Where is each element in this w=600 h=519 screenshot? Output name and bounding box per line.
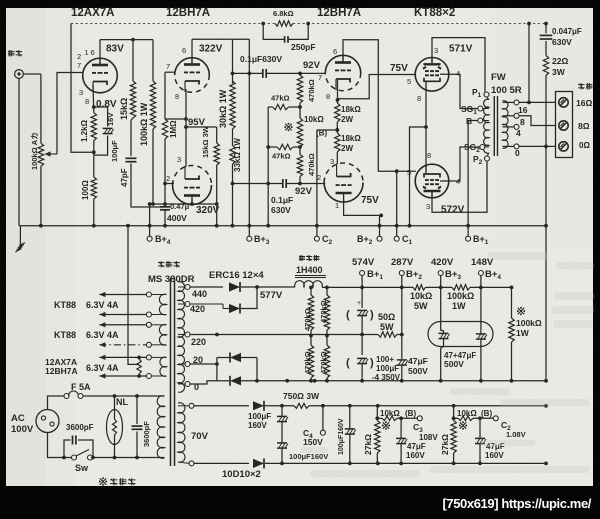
choke 1H400 <box>295 281 323 287</box>
label 0.1uF630V upper <box>240 54 282 64</box>
label 574V <box>352 257 375 268</box>
wire plate node y204 <box>150 202 217 206</box>
label 18k-ohm 2W second <box>341 134 361 153</box>
label 10D10x2 <box>222 469 261 480</box>
tube KT88 upper <box>415 58 449 92</box>
wire V3a cathode <box>336 80 340 102</box>
label 75V upper <box>390 63 408 74</box>
wire switch to PT <box>62 456 164 460</box>
PT core <box>171 278 175 466</box>
label 100k-ohm 1W <box>139 102 149 146</box>
wire V2a grid drop <box>164 72 166 119</box>
terminal tap 20 <box>178 362 190 367</box>
wire KT88 lower cathode <box>425 127 427 173</box>
wire AC top <box>48 396 65 410</box>
resistor 18k-ohm 2W second <box>335 133 340 152</box>
label 100+100uF <box>372 355 401 382</box>
resistor 47k-ohm upper <box>268 104 300 109</box>
resistor 100-ohm <box>91 177 96 199</box>
mark kome upper <box>284 123 292 131</box>
label 15k-ohm <box>119 98 129 120</box>
capacitor bias doubler 1 <box>277 406 288 443</box>
wire coupling top <box>233 72 263 74</box>
terminal C2 upper <box>314 234 332 246</box>
capacitor 47pF <box>126 158 137 161</box>
resistor 1M-ohm grid <box>162 119 167 139</box>
label 470k-ohm upper <box>307 79 316 102</box>
wire 220 tap line <box>190 334 217 336</box>
label Sw <box>75 463 89 473</box>
wire V1 cathode <box>92 85 95 113</box>
label 10k-ohm 5W <box>410 291 432 311</box>
resistor 50-ohm 5W <box>362 332 397 337</box>
label 420 <box>190 304 205 314</box>
wire sec top tap 16-ohm <box>503 100 556 105</box>
wire sec tap 8 <box>503 113 556 125</box>
heater winding KT88 no2 <box>151 325 166 346</box>
wire heater3 leads <box>99 355 146 379</box>
terminal board <box>556 92 573 158</box>
wire input ground stub <box>19 225 20 227</box>
wire zobel down right rail <box>545 76 547 147</box>
wire divider1 tap <box>375 416 382 420</box>
pin 6 V2a <box>182 46 186 55</box>
tube KT88 lower <box>415 164 449 198</box>
pin 3 V3b <box>330 157 334 166</box>
PT HV secondary <box>178 282 184 393</box>
diode D2 <box>229 304 240 314</box>
wire 47pF to V2b grid <box>131 164 165 208</box>
label 33k-ohm 1W <box>233 138 242 172</box>
wire B+2 stub <box>400 276 404 290</box>
terminal B+2 upper <box>357 234 382 246</box>
label 572V <box>441 205 465 216</box>
label 420V <box>431 257 454 268</box>
resistor 470k-ohm B1 <box>324 295 329 330</box>
label 0.047uF <box>552 27 582 36</box>
wire B+3 stub <box>439 276 443 290</box>
label 47uF 160V first <box>406 442 426 460</box>
label FW <box>491 72 506 83</box>
terminal C1 upper <box>394 234 412 246</box>
wire right ground rail <box>544 146 548 380</box>
terminal B+1 upper <box>466 234 489 246</box>
wire D3-D4 join <box>256 358 258 381</box>
label 400V <box>167 213 187 223</box>
label 30k-ohm 1W <box>218 89 228 128</box>
wire cathode node <box>92 105 96 177</box>
pin 7 V3a <box>318 73 322 82</box>
tube V3b 12BH7A lower <box>324 163 363 202</box>
capacitor 0.47uF 400V <box>160 207 170 210</box>
resistor 470k-ohm lower <box>297 147 302 184</box>
wire bypass bottom <box>94 136 108 156</box>
capacitor 100uF 160V smoothing <box>345 406 356 464</box>
tube V2b 12BH7A lower half <box>173 166 212 205</box>
pin 7 V2a <box>166 62 170 71</box>
label 6.8k-ohm <box>273 9 294 18</box>
label NL <box>116 397 128 407</box>
terminal B+3 <box>247 234 270 246</box>
label 47+47uF 500V <box>444 351 476 369</box>
resistor 15k-ohm 3W <box>214 143 219 165</box>
label 100uF 160V bias <box>248 412 271 430</box>
wire V2a plate up <box>192 39 233 64</box>
resistor 30k-ohm 1W <box>230 81 235 129</box>
wire left chain rail <box>266 107 270 228</box>
label tango choke <box>299 255 319 261</box>
wire D2 out up <box>241 287 257 309</box>
label 92V upper <box>303 60 321 71</box>
pin 2 <box>77 52 81 61</box>
wire sec tap 0 <box>503 144 556 149</box>
wire V1 plate up <box>100 38 153 65</box>
label 220 <box>191 337 206 347</box>
label 10k-ohm B first <box>380 409 416 418</box>
resistor 15k-ohm <box>130 81 135 118</box>
diode D1 <box>229 282 240 292</box>
pin 2 V3b <box>317 173 321 182</box>
label adjust note <box>99 477 136 485</box>
label 3600pF sw <box>66 423 94 432</box>
terminal SG2 <box>464 142 489 154</box>
scan artifact blotches <box>300 252 594 477</box>
label 27k-ohm second <box>440 434 450 455</box>
label 470k-ohm A2 <box>303 351 312 374</box>
label AC 100V <box>11 413 34 435</box>
terminal heater1 b <box>146 312 151 317</box>
pin 3 KT88 upper <box>434 46 438 55</box>
label 70V <box>191 431 209 442</box>
resistor 470k-ohm B2 <box>324 345 329 378</box>
wire heater1 leads <box>99 292 146 317</box>
label 100k-ohm A <box>30 132 39 170</box>
terminal B+3 psu <box>438 269 461 281</box>
wire 15k3W bottom to bus <box>215 165 219 228</box>
wire 30k to 33k <box>231 129 235 185</box>
terminal heater1 a <box>146 292 151 297</box>
terminal 70V bottom <box>178 461 194 466</box>
resistor 27k-ohm second <box>451 406 456 464</box>
label 12BH7A first <box>166 7 210 19</box>
pin 5 KT88 lower <box>407 168 411 177</box>
pot wiper arrow <box>45 151 58 156</box>
terminal B+2 psu <box>399 269 422 281</box>
label 50-ohm 5W <box>378 312 395 332</box>
label 10k-ohm B second <box>457 409 492 418</box>
resistor 470k-ohm A2 <box>308 345 313 378</box>
wire B+2 column <box>401 287 403 359</box>
label 100k-ohm 1W dropper <box>447 291 474 311</box>
resistor 100k-ohm 1W plate load <box>150 81 155 129</box>
capacitor 47uF 160V first <box>396 416 407 463</box>
PT 70V winding <box>178 403 185 463</box>
wire 1M top tick <box>165 117 188 121</box>
wire D1 out <box>241 285 295 289</box>
pin 8 KT88 upper <box>417 94 421 103</box>
label 16-ohm out <box>576 98 592 108</box>
capacitor bias doubler 2 <box>277 443 288 465</box>
wire bypass top <box>94 107 108 127</box>
wire V2a grid <box>165 71 175 73</box>
terminal B bias first <box>417 416 422 421</box>
label 100uF160V vert <box>338 418 345 455</box>
wire KT88 lower g2 <box>440 147 480 181</box>
label tap 0 <box>515 148 520 158</box>
wire to D3 <box>217 357 229 359</box>
capacitor filter 50uF first <box>346 300 374 336</box>
label 47k-ohm lower <box>272 152 291 161</box>
terminal P2 <box>473 153 490 166</box>
capacitor 47uF b <box>476 334 487 381</box>
wire bplus bus 1 <box>362 286 413 288</box>
wire pot top drop <box>40 74 42 143</box>
label 1.2k-ohm <box>80 119 89 142</box>
label 250pF <box>291 42 316 52</box>
wire bias bottom <box>194 462 249 464</box>
label 470k-ohm A1 <box>303 308 312 331</box>
wire NL stubs <box>114 396 116 458</box>
wire ground bus <box>20 225 546 227</box>
terminal B <box>466 116 489 126</box>
wire feedback drop to V1 cathode <box>71 24 94 153</box>
resistor 33k-ohm 1W <box>230 146 235 165</box>
label 0.1uF 630V lower <box>271 195 293 215</box>
resistor 1.2k-ohm cathode <box>91 113 96 141</box>
PT AC primary <box>157 396 164 459</box>
wire 100-ohm to bus <box>92 199 96 228</box>
wire bias top cont <box>265 404 294 408</box>
wire B+3 riser <box>247 39 251 238</box>
capacitor filter second <box>346 357 374 381</box>
neon lamp NL <box>107 410 123 445</box>
wire jack ground drop <box>18 78 20 225</box>
wire heater2 leads <box>99 322 146 347</box>
heater winding KT88 no1 <box>151 294 166 315</box>
wire bplus bus 2 <box>426 286 453 288</box>
label 6.3V 4A h2 <box>86 330 119 340</box>
mark kome d1 <box>382 421 390 429</box>
pin 4 KT88 upper <box>456 69 460 78</box>
label 100-ohm <box>81 180 90 200</box>
label KT88x2 <box>414 7 455 19</box>
label 750-ohm 3W <box>283 391 320 401</box>
wire bias bottom cont <box>265 462 548 466</box>
label KT88 h1 <box>54 300 76 310</box>
diode D4 <box>230 376 241 386</box>
label 22-ohm <box>552 56 568 66</box>
wire D3 out <box>241 357 257 359</box>
wire 420 to D2 <box>190 304 229 309</box>
resistor hum balance <box>136 356 141 378</box>
resistor 47k-ohm lower <box>268 144 302 149</box>
wire B+1 riser <box>466 121 478 239</box>
label 470k-ohm lower <box>307 153 316 176</box>
label 0-ohm out <box>579 141 590 150</box>
terminal heater2 b <box>146 342 151 347</box>
label tap 4 <box>516 128 521 138</box>
label C2 bias <box>501 420 511 432</box>
label 12AX7A <box>71 7 114 19</box>
wire 15k drop <box>132 40 134 81</box>
wire fuse to PT <box>83 394 165 398</box>
capacitor 0.047uF 630V <box>540 24 553 56</box>
capacitor 0.1uF 630V upper <box>263 69 266 78</box>
wire coupling bottom <box>233 183 283 185</box>
label MS 380DR <box>148 274 195 285</box>
wire KT88 lower plate <box>432 161 487 212</box>
wire feedback riser <box>528 24 530 103</box>
label tap 16 <box>518 105 528 115</box>
label 320V <box>196 205 220 216</box>
wire 0 tap <box>190 381 217 384</box>
resistor 6.8k-ohm feedback <box>275 21 293 26</box>
wire cathodes join to bus <box>408 125 428 228</box>
pin 8 <box>85 97 89 106</box>
label 12BH7A second <box>317 7 361 19</box>
wire 15k3W top <box>184 125 217 143</box>
wire B+3 column <box>441 287 444 333</box>
pin 6 <box>91 48 95 57</box>
wire wiper to V1 grid <box>57 73 83 155</box>
capacitor 47uF a <box>439 333 450 380</box>
terminal P1 <box>472 87 489 99</box>
wire coupling top to V3a grid <box>267 72 325 76</box>
wire filter2 drop <box>361 335 363 356</box>
label 287V <box>391 257 414 268</box>
wire lower diode anode rail <box>216 358 218 381</box>
wire V1 plate load drop <box>152 40 154 81</box>
mark kome bleeder <box>517 307 525 315</box>
wire 0.47u to bus <box>163 210 167 228</box>
terminal B+4 <box>147 202 171 246</box>
wire bias top <box>194 405 249 407</box>
paper noise texture <box>0 0 1 1</box>
resistor 10k-ohm B grid <box>297 118 302 147</box>
ground symbol <box>15 226 25 252</box>
label 27k-ohm first <box>363 434 373 455</box>
label 6.3V 4A h3 <box>86 363 119 373</box>
resistor 100k-ohm 1W dropper <box>452 285 470 290</box>
wire B+4 column <box>480 287 482 334</box>
label 95V <box>188 117 206 128</box>
resistor 100k-ohm 1W bleeder <box>509 287 514 380</box>
label 100 5R <box>491 85 522 96</box>
terminal C4 bias <box>320 406 325 435</box>
label 100k-ohm bleeder <box>516 318 542 338</box>
resistor 10k-ohm B first <box>382 416 417 421</box>
label tango PT <box>158 261 180 268</box>
capacitor 47uF 500V <box>397 360 408 381</box>
label 0 hv <box>194 382 199 392</box>
wire D4 out / psu common <box>241 379 548 383</box>
terminal heater2 a <box>146 322 151 327</box>
label 18k-ohm 2W first <box>341 105 361 124</box>
wire choke out to B+ bus <box>322 286 362 288</box>
label 6.3V 4A h1 <box>86 300 119 310</box>
volume pot 100k-ohm A R1 <box>38 143 43 166</box>
wire V2a cathode down <box>185 89 186 167</box>
capacitor 250pF feedback <box>261 22 310 43</box>
screw terminal 0-ohm <box>559 142 568 151</box>
wire 440 to D1 <box>190 286 223 288</box>
diode D6 bias <box>253 458 264 468</box>
wire plate rail drop <box>231 39 235 83</box>
resistor 22-ohm 3W <box>543 56 548 76</box>
wire B+2 riser <box>378 215 382 238</box>
terminal tap 220 <box>178 332 190 337</box>
terminal tap 440 <box>178 285 190 290</box>
pin 3 <box>79 88 83 97</box>
label 16V <box>106 113 115 126</box>
wire plate rail to B+3 <box>233 38 250 40</box>
label 12AX7A h3 <box>45 357 77 367</box>
terminal 70V top <box>178 403 194 408</box>
wire feedback line from 16-ohm tap <box>71 22 548 26</box>
label input (nyuryoku) <box>8 50 22 57</box>
capacitor 100uF 16V bypass <box>103 128 114 133</box>
capacitor 3600pF line <box>132 396 143 458</box>
pin 7 <box>77 61 81 70</box>
label 577V <box>260 290 283 301</box>
label 470k-ohm B2 <box>319 351 328 374</box>
wire 100k to B+4 <box>152 129 154 204</box>
screw terminal 8-ohm <box>559 121 568 130</box>
wire KT88 upper g2 <box>440 74 478 108</box>
label C3 <box>413 422 423 434</box>
label C4 <box>303 428 313 440</box>
resistor 470k-ohm upper <box>297 73 302 118</box>
wire 1M to grid node <box>163 139 174 185</box>
resistor 27k-ohm first <box>375 406 380 464</box>
label 470k-ohm B1 <box>319 300 328 323</box>
label tap 8 <box>520 117 525 127</box>
tube V2a 12BH7A upper half <box>175 58 210 93</box>
tube V3a 12BH7A upper <box>325 55 360 90</box>
wire 220 line continue <box>215 333 362 337</box>
label 1H400 <box>295 265 326 278</box>
terminal B+4 psu <box>478 269 501 281</box>
pin 8 V2a <box>175 92 179 101</box>
pin 2 V2b <box>166 174 170 183</box>
label 15k-ohm 3W <box>201 125 210 158</box>
wire 20 tap to lower diodes <box>190 362 219 366</box>
label 100uF160V left <box>289 452 328 461</box>
wire bplus bus 3 <box>470 286 513 290</box>
label 571V <box>449 44 473 55</box>
wire pot bottom to ground bus <box>39 166 43 227</box>
label 108V second <box>506 430 526 439</box>
terminal heater3 b <box>146 374 151 379</box>
label 12BH7A h3 <box>45 366 78 376</box>
label ERC16 12x4 <box>209 270 264 281</box>
label 0.8V <box>96 99 117 110</box>
label 83V <box>106 44 124 55</box>
svg-text:[750x619] https://upic.me/: [750x619] https://upic.me/ <box>442 496 591 511</box>
resistor 470k-ohm A1 <box>308 295 313 330</box>
output transformer secondary <box>503 101 509 148</box>
label 47uF 160V second <box>485 442 505 460</box>
terminal SG1 <box>461 104 489 116</box>
pin 4 KT88 lower <box>456 177 460 186</box>
bottom watermark bar <box>0 486 600 514</box>
wire bias top to right <box>309 404 548 408</box>
terminal tap 0hv <box>178 382 190 387</box>
pin 3 V2b <box>177 155 181 164</box>
wire divider2 tap <box>452 416 458 420</box>
diode D5 bias <box>253 401 264 411</box>
pin 1 V3b <box>335 201 339 210</box>
